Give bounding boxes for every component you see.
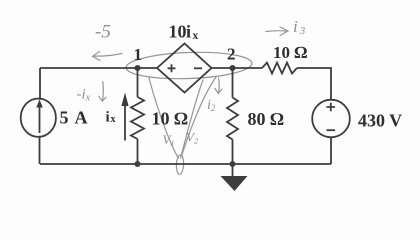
svg-text:1: 1	[134, 45, 143, 64]
svg-text:2: 2	[227, 45, 236, 64]
svg-text:10 Ω: 10 Ω	[273, 43, 307, 62]
svg-text:i: i	[106, 110, 110, 126]
svg-text:A: A	[75, 108, 88, 128]
svg-text:x: x	[193, 30, 199, 42]
svg-text:-5: -5	[95, 22, 111, 43]
svg-text:x: x	[111, 114, 116, 125]
svg-text:5: 5	[60, 108, 69, 128]
svg-text:10 Ω: 10 Ω	[152, 109, 189, 129]
svg-text:10: 10	[169, 22, 187, 42]
svg-text:80 Ω: 80 Ω	[248, 109, 285, 129]
svg-text:i: i	[186, 22, 191, 42]
svg-text:430 V: 430 V	[358, 111, 402, 131]
